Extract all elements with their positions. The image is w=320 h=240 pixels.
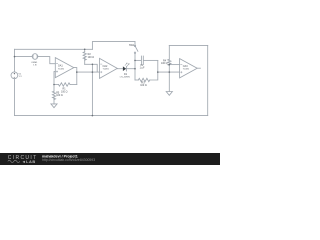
circuitlab logo <box>8 155 38 164</box>
ring left vertical <box>134 60 136 80</box>
svg-text:100 Ω: 100 Ω <box>88 56 95 59</box>
junction dots <box>14 49 170 117</box>
OA1 minus mark <box>56 63 57 65</box>
wire ring exit to OA3 plus input <box>158 71 180 73</box>
junction OA1 feedback left <box>53 84 55 86</box>
resistor R3 <box>138 78 149 81</box>
wire R3 to ring right vertical <box>150 60 158 80</box>
OA2 plus mark <box>101 71 102 72</box>
svg-text:100 Ω: 100 Ω <box>161 62 168 65</box>
junction R4 to OA3 minus <box>169 64 171 66</box>
junction switch to ring <box>134 60 136 62</box>
component labels <box>19 44 190 97</box>
svg-text:LTL-4296N: LTL-4296N <box>120 76 130 78</box>
op-amp OA1 <box>55 58 74 78</box>
switch SW1 <box>134 42 138 61</box>
ground symbol right <box>166 92 172 96</box>
junction bottom rail <box>92 115 94 117</box>
wire R1 to left column <box>54 84 59 86</box>
junction ring exit <box>157 71 159 73</box>
svg-text:100 Ω: 100 Ω <box>61 90 68 93</box>
wire junction column to bottom rail <box>91 64 93 115</box>
footer bar <box>0 153 220 165</box>
wire meter to OA1 top input <box>38 57 56 64</box>
svg-text:◄LAB: ◄LAB <box>22 159 36 164</box>
wire OA2 output to LED <box>117 68 123 70</box>
svg-text:http://circuitlab.com/c4ze8430: http://circuitlab.com/c4ze84300593 <box>42 158 95 162</box>
right vertical <box>207 45 209 115</box>
wire rail jog up <box>92 42 135 50</box>
junction R2 top on rail <box>84 49 86 51</box>
OA3 minus mark <box>181 63 182 65</box>
svg-text:TL081: TL081 <box>103 69 110 71</box>
wire feedback bottom to R1 <box>70 84 77 86</box>
junction LED to ring <box>134 68 136 70</box>
svg-text:TL081: TL081 <box>58 68 65 70</box>
LED D1 <box>123 63 129 71</box>
resistor R4 <box>168 59 171 65</box>
left top rail <box>15 48 93 50</box>
svg-text:OA3: OA3 <box>183 65 188 68</box>
svg-text:TL081: TL081 <box>183 68 190 70</box>
resistor R2 <box>83 49 86 64</box>
wire OA1 output corner down <box>74 68 77 85</box>
junction OA2 plus wire cross <box>92 71 94 73</box>
resistor R5 <box>52 91 55 99</box>
resistor R1 <box>58 83 70 86</box>
wire node up to left rail corner <box>14 49 16 56</box>
junction ground stem <box>169 71 171 73</box>
ammeter OSM1 <box>32 54 38 60</box>
bottom rail <box>15 115 208 117</box>
V1 plus minus marks <box>14 73 15 77</box>
ground symbol left <box>51 104 57 108</box>
svg-text:1 µF: 1 µF <box>140 66 145 69</box>
OA1 plus mark <box>56 71 57 72</box>
feedback top rail <box>169 44 207 46</box>
junction R2 bottom node <box>92 64 94 66</box>
ring top wire to C1 <box>135 59 141 61</box>
wire V1 top to meter node <box>14 57 16 72</box>
svg-text:1 B: 1 B <box>33 65 37 67</box>
svg-text:1 V: 1 V <box>19 76 23 78</box>
wire R4 node to OA3 minus input <box>169 64 179 66</box>
op-amp OA3 <box>180 59 198 78</box>
R4 column to ground <box>168 64 170 91</box>
wire node to meter <box>15 56 33 58</box>
R4 column top from rail <box>168 45 170 59</box>
ring bottom wire <box>135 79 138 81</box>
op-amp OA2 <box>100 58 118 78</box>
wire V1 bottom to rail <box>14 79 16 116</box>
wire R2 bottom jog to OA2 <box>85 64 98 72</box>
wire OA1 to OA2 plus input <box>77 71 100 73</box>
wire LED cathode to ring <box>126 68 135 70</box>
capacitor C1 <box>141 56 157 65</box>
OA2 minus mark <box>101 63 102 65</box>
svg-text:OA2: OA2 <box>103 65 108 68</box>
voltage source V1 <box>11 72 18 79</box>
junction V1-ammeter branch <box>14 56 16 58</box>
junction OA1 output branch <box>76 71 78 73</box>
wire left column to OA1 bottom input <box>54 72 55 85</box>
wire R5 to ground <box>53 97 55 104</box>
OA3 plus mark <box>181 72 182 73</box>
svg-text:100 Ω: 100 Ω <box>140 84 147 87</box>
svg-text:OA1: OA1 <box>58 65 63 68</box>
wire left column down to R5 <box>53 85 55 92</box>
svg-text:SW1: SW1 <box>129 44 135 47</box>
wire OA3 output <box>197 67 200 69</box>
svg-text:100 Ω: 100 Ω <box>56 94 63 97</box>
